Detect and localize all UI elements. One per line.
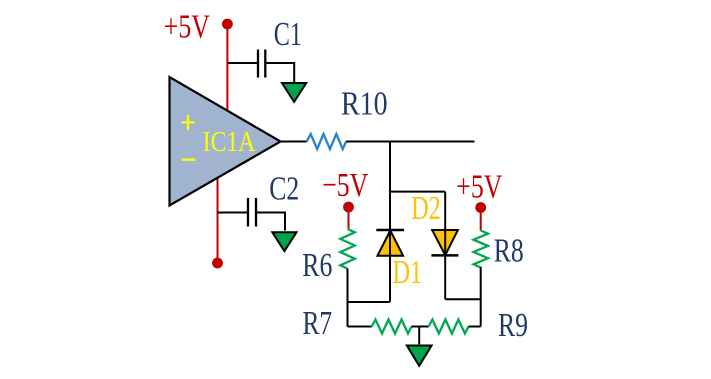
wire main output horizontal [346,141,474,143]
wire C2 right [257,213,285,231]
wire +5V rail vertical (top) [226,24,228,111]
svg-text:IC1A: IC1A [203,127,256,158]
svg-text:+5V: +5V [164,9,210,46]
svg-text:+5V: +5V [456,169,502,206]
wire D1 bottom horizontal [348,301,391,303]
wire branch horizontal to D2 [390,191,445,193]
wire C1 right [266,63,294,82]
svg-text:R9: R9 [498,307,528,344]
wire V- rail vertical (bottom of op-amp) [217,179,219,264]
wire R7 left lead [348,326,372,328]
op-amp plus input marker [182,115,195,130]
resistor R7 [372,320,412,334]
ground (C2) [272,232,296,251]
svg-text:C2: C2 [269,171,299,208]
svg-text:D2: D2 [411,190,441,227]
wire -5V to R6 [348,207,350,230]
wire R7-R9 junction [412,326,429,328]
wire R6 bottom vertical [347,269,349,327]
resistor R9 [429,320,469,334]
wire D2 vertical [444,192,446,300]
svg-text:R7: R7 [303,305,333,342]
wire D1 vertical branch [389,142,391,303]
node +5V dot (right) [475,202,486,213]
capacitor C1 [258,50,265,78]
svg-text:R8: R8 [494,233,524,270]
svg-text:−5V: −5V [322,167,368,204]
wire C1 left [227,62,257,64]
svg-text:D1: D1 [393,254,423,291]
diode D2 [431,230,458,255]
node +5V dot (top) [222,19,233,30]
resistor R6 [340,229,355,269]
wire R9 right lead [469,326,481,328]
ground (C1) [282,83,306,102]
wire R8 bottom vertical [480,267,482,327]
node V- dot (bottom) [212,258,223,269]
op-amp U1 IC1A [170,77,281,206]
wire C2 left [218,212,248,214]
wire +5V to R8 [480,208,482,231]
wire D2 bottom to R8 column [445,298,481,300]
node -5V dot [343,202,354,213]
resistor R10 [307,134,346,149]
svg-text:R6: R6 [302,247,332,284]
capacitor C2 [248,198,256,227]
wire ground stub (bottom) [418,327,420,345]
svg-text:R10: R10 [341,86,388,123]
ground (bottom) [407,346,432,366]
wire op-amp output stub [281,141,307,143]
op-amp minus input marker [182,158,196,160]
resistor R8 [474,231,489,268]
diode D1 [376,230,404,256]
svg-text:C1: C1 [274,16,302,53]
